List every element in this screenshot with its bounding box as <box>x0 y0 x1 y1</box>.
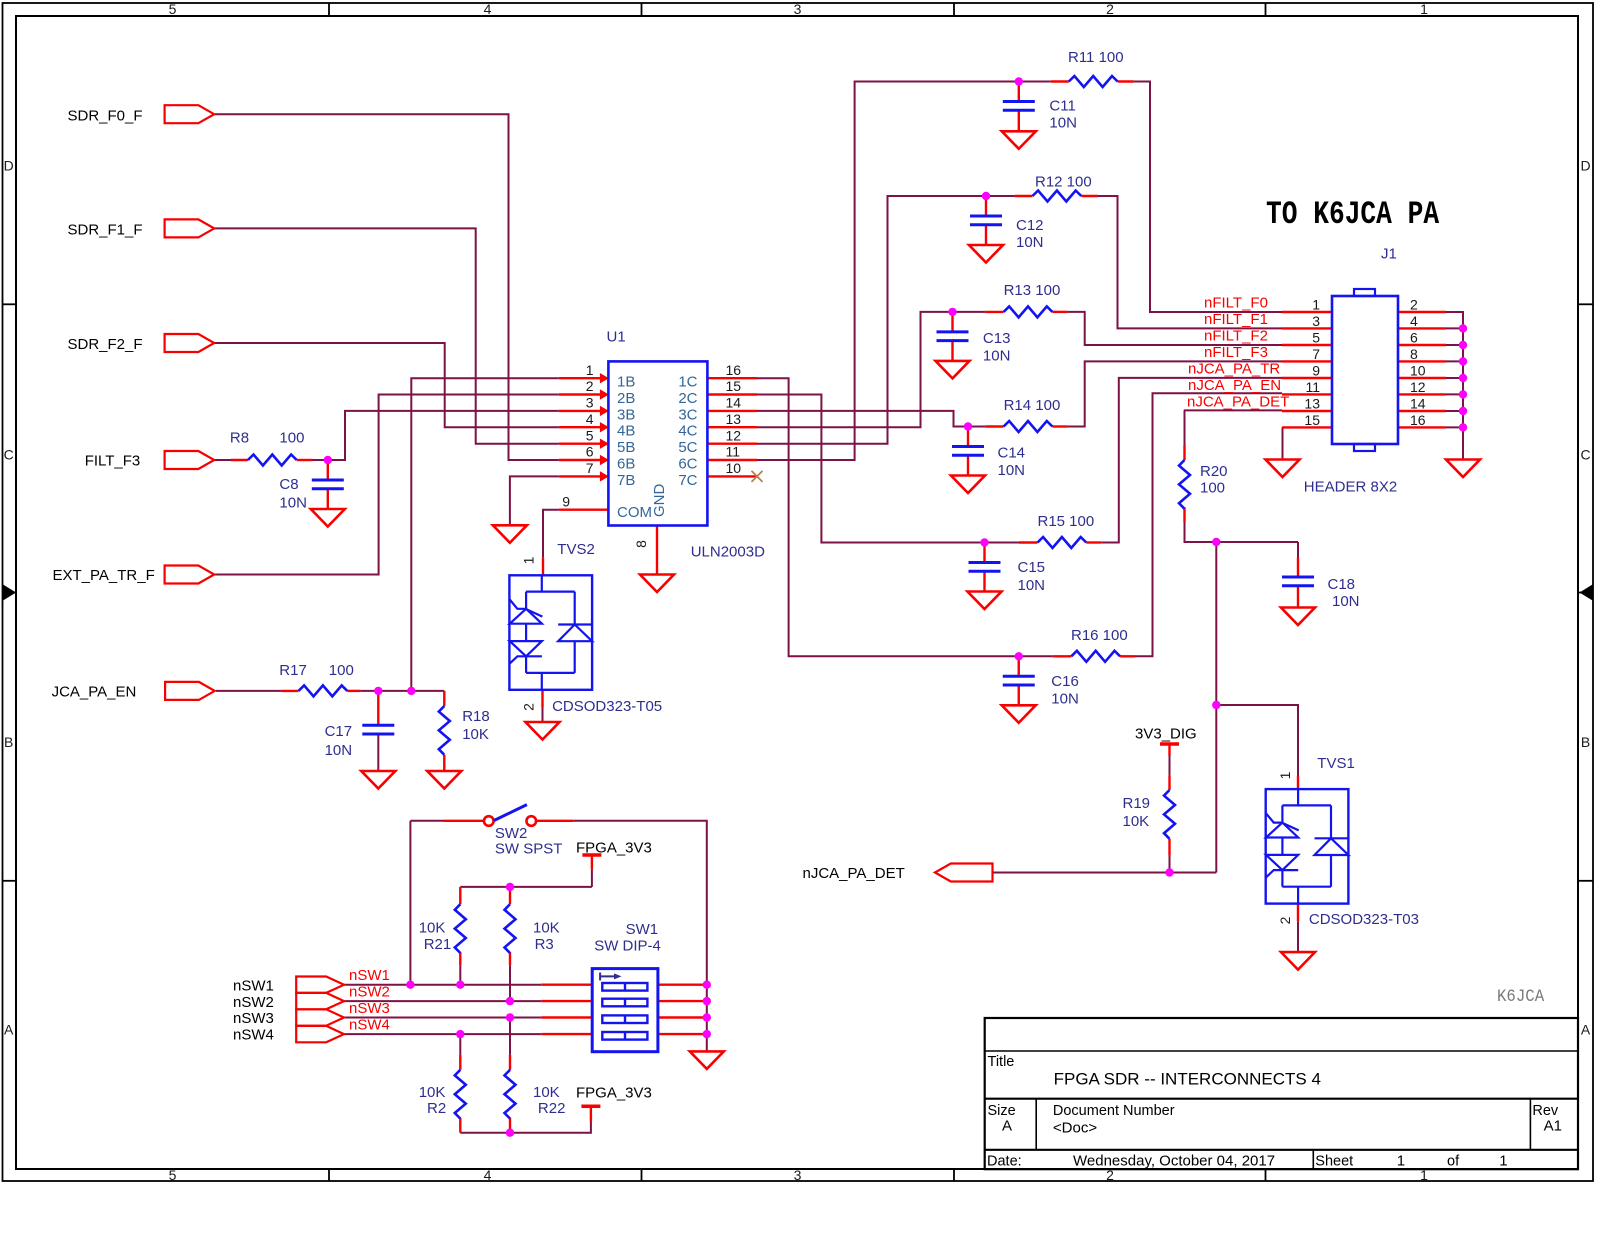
svg-text:SDR_F1_F: SDR_F1_F <box>68 222 143 239</box>
svg-text:11: 11 <box>726 444 741 460</box>
svg-text:nJCA_PA_EN: nJCA_PA_EN <box>1188 377 1281 394</box>
svg-text:nJCA_PA_TR: nJCA_PA_TR <box>1188 361 1280 378</box>
svg-text:5: 5 <box>586 427 594 443</box>
svg-text:Title: Title <box>988 1054 1015 1070</box>
svg-text:nSW4: nSW4 <box>349 1016 390 1033</box>
svg-text:14: 14 <box>726 395 742 411</box>
svg-text:SW2: SW2 <box>495 825 528 842</box>
svg-text:GND: GND <box>651 484 668 518</box>
svg-text:R20: R20 <box>1200 463 1228 480</box>
svg-text:5: 5 <box>1312 330 1320 346</box>
svg-text:nSW4: nSW4 <box>233 1027 274 1044</box>
svg-text:nSW1: nSW1 <box>349 967 390 984</box>
svg-text:HEADER 8X2: HEADER 8X2 <box>1304 479 1397 496</box>
svg-text:B: B <box>1581 734 1590 750</box>
svg-text:2: 2 <box>521 703 537 711</box>
svg-text:TO K6JCA PA: TO K6JCA PA <box>1266 197 1440 233</box>
svg-text:C17: C17 <box>325 723 353 740</box>
svg-text:nFILT_F3: nFILT_F3 <box>1204 344 1268 361</box>
svg-text:FPGA SDR -- INTERCONNECTS 4: FPGA SDR -- INTERCONNECTS 4 <box>1054 1070 1321 1089</box>
svg-text:R14 100: R14 100 <box>1004 397 1061 414</box>
svg-text:7: 7 <box>1312 346 1320 362</box>
svg-text:2: 2 <box>1277 916 1293 924</box>
svg-text:D: D <box>1580 158 1590 174</box>
svg-text:A: A <box>4 1022 14 1038</box>
svg-text:SW SPST: SW SPST <box>495 841 563 858</box>
svg-text:nJCA_PA_DET: nJCA_PA_DET <box>1187 394 1289 411</box>
svg-text:nFILT_F2: nFILT_F2 <box>1204 328 1268 345</box>
svg-text:2: 2 <box>586 378 594 394</box>
svg-text:10N: 10N <box>1016 234 1044 251</box>
svg-text:Wednesday, October 04, 2017: Wednesday, October 04, 2017 <box>1073 1153 1275 1170</box>
svg-text:1: 1 <box>1277 771 1293 779</box>
svg-text:3: 3 <box>586 395 594 411</box>
svg-text:nJCA_PA_DET: nJCA_PA_DET <box>803 865 905 882</box>
svg-text:7: 7 <box>586 460 594 476</box>
svg-text:SDR_F0_F: SDR_F0_F <box>68 107 143 124</box>
svg-text:nSW1: nSW1 <box>233 977 274 994</box>
svg-text:10K: 10K <box>533 919 560 936</box>
svg-text:7B: 7B <box>617 472 635 489</box>
svg-text:100: 100 <box>279 430 304 447</box>
svg-text:C11: C11 <box>1049 98 1075 115</box>
svg-text:FPGA_3V3: FPGA_3V3 <box>576 840 652 857</box>
svg-text:1B: 1B <box>617 374 635 391</box>
svg-text:R2: R2 <box>427 1100 446 1117</box>
svg-text:3B: 3B <box>617 406 635 423</box>
svg-text:3C: 3C <box>678 406 697 423</box>
svg-text:5B: 5B <box>617 439 635 456</box>
svg-text:C16: C16 <box>1051 673 1079 690</box>
svg-text:R15 100: R15 100 <box>1038 513 1095 530</box>
svg-text:14: 14 <box>1410 396 1426 412</box>
svg-text:2: 2 <box>1106 1 1114 17</box>
svg-text:6: 6 <box>1410 330 1418 346</box>
svg-text:16: 16 <box>1410 412 1426 428</box>
svg-text:SW DIP-4: SW DIP-4 <box>594 938 661 955</box>
svg-text:nFILT_F0: nFILT_F0 <box>1204 295 1268 312</box>
svg-text:10K: 10K <box>419 1084 446 1101</box>
svg-text:1: 1 <box>1499 1153 1507 1170</box>
svg-text:6C: 6C <box>678 456 697 473</box>
svg-text:10N: 10N <box>279 495 307 512</box>
svg-text:Sheet: Sheet <box>1315 1154 1353 1170</box>
svg-text:4B: 4B <box>617 423 635 440</box>
svg-text:1C: 1C <box>678 374 697 391</box>
svg-text:10N: 10N <box>1049 115 1077 132</box>
svg-text:4: 4 <box>484 1167 492 1183</box>
svg-text:10N: 10N <box>1332 593 1360 610</box>
svg-text:A: A <box>1581 1022 1591 1038</box>
svg-text:10K: 10K <box>1123 813 1150 830</box>
svg-text:<Doc>: <Doc> <box>1053 1120 1097 1137</box>
svg-text:A: A <box>1002 1118 1012 1135</box>
svg-text:5C: 5C <box>678 439 697 456</box>
svg-text:ULN2003D: ULN2003D <box>691 544 765 561</box>
svg-text:1: 1 <box>1420 1 1428 17</box>
svg-text:12: 12 <box>726 427 742 443</box>
svg-text:COM: COM <box>617 504 652 521</box>
svg-text:C: C <box>1580 447 1590 463</box>
svg-text:R11 100: R11 100 <box>1068 49 1124 66</box>
svg-text:10N: 10N <box>1051 691 1079 708</box>
svg-text:8: 8 <box>633 540 649 548</box>
svg-text:10N: 10N <box>1018 577 1046 594</box>
svg-text:nSW2: nSW2 <box>233 994 274 1011</box>
svg-text:10: 10 <box>1410 363 1426 379</box>
svg-text:1: 1 <box>1312 297 1320 313</box>
svg-text:FILT_F3: FILT_F3 <box>85 453 141 470</box>
svg-text:3: 3 <box>794 1 802 17</box>
svg-text:TVS1: TVS1 <box>1317 755 1355 772</box>
svg-text:A1: A1 <box>1544 1118 1562 1135</box>
svg-text:C8: C8 <box>279 476 298 493</box>
svg-text:C18: C18 <box>1328 576 1356 593</box>
svg-text:R19: R19 <box>1123 795 1151 812</box>
svg-text:11: 11 <box>1305 379 1320 395</box>
svg-text:5: 5 <box>169 1 177 17</box>
svg-text:12: 12 <box>1410 379 1426 395</box>
svg-text:SW1: SW1 <box>626 921 659 938</box>
svg-text:R16 100: R16 100 <box>1071 627 1128 644</box>
svg-text:nFILT_F1: nFILT_F1 <box>1204 311 1268 328</box>
svg-text:100: 100 <box>1200 480 1225 497</box>
svg-text:R18: R18 <box>462 708 490 725</box>
svg-text:R8: R8 <box>230 430 249 447</box>
svg-text:5: 5 <box>169 1167 177 1183</box>
svg-text:16: 16 <box>726 362 742 378</box>
svg-text:K6JCA: K6JCA <box>1497 986 1544 1006</box>
svg-text:4C: 4C <box>678 423 697 440</box>
svg-text:10K: 10K <box>533 1084 560 1101</box>
svg-text:nSW3: nSW3 <box>233 1010 274 1027</box>
svg-text:13: 13 <box>1304 396 1320 412</box>
svg-text:JCA_PA_EN: JCA_PA_EN <box>52 684 137 701</box>
svg-text:D: D <box>4 158 14 174</box>
svg-text:10: 10 <box>726 460 742 476</box>
svg-text:10K: 10K <box>419 919 446 936</box>
svg-text:15: 15 <box>1304 412 1320 428</box>
svg-text:10N: 10N <box>325 742 353 759</box>
svg-text:Date:: Date: <box>987 1154 1022 1170</box>
svg-text:C12: C12 <box>1016 217 1044 234</box>
svg-text:2B: 2B <box>617 390 635 407</box>
svg-text:13: 13 <box>726 411 742 427</box>
svg-text:3: 3 <box>794 1167 802 1183</box>
svg-text:7C: 7C <box>678 472 697 489</box>
svg-text:EXT_PA_TR_F: EXT_PA_TR_F <box>53 567 155 584</box>
svg-text:10N: 10N <box>998 462 1026 479</box>
svg-text:1: 1 <box>1397 1153 1405 1170</box>
svg-text:Document Number: Document Number <box>1053 1103 1175 1119</box>
svg-text:8: 8 <box>1410 346 1418 362</box>
svg-text:R3: R3 <box>535 936 554 953</box>
svg-text:B: B <box>4 734 13 750</box>
svg-text:6: 6 <box>586 444 594 460</box>
svg-text:CDSOD323-T03: CDSOD323-T03 <box>1309 911 1419 928</box>
svg-text:3: 3 <box>1312 313 1320 329</box>
svg-text:4: 4 <box>484 1 492 17</box>
svg-text:TVS2: TVS2 <box>557 541 595 558</box>
svg-text:2: 2 <box>1410 297 1418 313</box>
svg-text:U1: U1 <box>607 329 626 346</box>
svg-text:R12 100: R12 100 <box>1035 174 1092 191</box>
svg-text:4: 4 <box>586 411 594 427</box>
svg-text:nSW3: nSW3 <box>349 1000 390 1017</box>
svg-text:3V3_DIG: 3V3_DIG <box>1135 726 1197 743</box>
svg-text:4: 4 <box>1410 313 1418 329</box>
svg-text:2C: 2C <box>678 390 697 407</box>
svg-text:9: 9 <box>1312 363 1320 379</box>
svg-text:SDR_F2_F: SDR_F2_F <box>68 336 143 353</box>
svg-text:100: 100 <box>329 662 354 679</box>
svg-text:9: 9 <box>562 493 570 509</box>
svg-text:R13 100: R13 100 <box>1004 282 1061 299</box>
svg-text:FPGA_3V3: FPGA_3V3 <box>576 1085 652 1102</box>
svg-text:1: 1 <box>521 556 537 564</box>
svg-text:C15: C15 <box>1018 559 1046 576</box>
svg-text:C: C <box>4 447 14 463</box>
svg-text:J1: J1 <box>1381 246 1397 263</box>
svg-text:C14: C14 <box>998 445 1026 462</box>
svg-text:R21: R21 <box>424 936 452 953</box>
svg-text:C13: C13 <box>983 330 1011 347</box>
svg-text:nSW2: nSW2 <box>349 984 390 1001</box>
svg-text:1: 1 <box>586 362 594 378</box>
svg-text:R17: R17 <box>279 662 307 679</box>
svg-text:6B: 6B <box>617 456 635 473</box>
svg-text:of: of <box>1447 1154 1460 1170</box>
svg-text:15: 15 <box>726 378 742 394</box>
svg-text:CDSOD323-T05: CDSOD323-T05 <box>552 698 662 715</box>
svg-text:10N: 10N <box>983 348 1011 365</box>
svg-text:10K: 10K <box>462 726 489 743</box>
svg-text:R22: R22 <box>538 1100 566 1117</box>
